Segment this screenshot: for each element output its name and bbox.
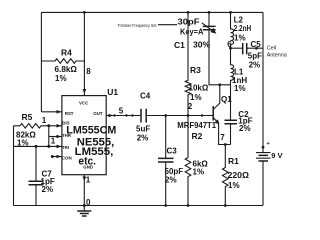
capacitor C4 xyxy=(136,91,213,142)
node dot base wire xyxy=(201,114,203,116)
node GND arrow xyxy=(82,177,86,182)
node junction top rail VCC xyxy=(83,11,86,14)
resistor R3 xyxy=(185,12,209,115)
resistor R5 xyxy=(14,112,62,148)
svg-text:5pF: 5pF xyxy=(248,52,262,61)
op-amp U1 555 IC box xyxy=(62,87,119,175)
svg-text:0: 0 xyxy=(86,198,91,207)
node junction TRI connector xyxy=(47,145,50,148)
svg-text:C4: C4 xyxy=(140,91,151,100)
svg-text:8: 8 xyxy=(86,67,91,76)
wire right vertical upper xyxy=(262,12,264,152)
svg-text:R4: R4 xyxy=(61,48,72,58)
node junction collector xyxy=(218,83,221,86)
node junction C5 right xyxy=(255,47,258,50)
svg-text:1: 1 xyxy=(51,137,56,146)
node junction node2 xyxy=(187,114,190,117)
svg-text:2.2nH: 2.2nH xyxy=(234,24,252,33)
wire top-left vertical xyxy=(40,12,42,111)
svg-text:1%: 1% xyxy=(234,84,246,93)
svg-text:U1: U1 xyxy=(107,87,118,97)
svg-text:VCC: VCC xyxy=(79,101,89,106)
node junction C7 top xyxy=(35,145,38,148)
node junction battery top xyxy=(262,146,265,149)
node VCC pin arrow xyxy=(83,89,87,94)
wire caption pointer xyxy=(158,24,177,26)
svg-text:1%: 1% xyxy=(234,33,246,42)
node junction C3 bottom xyxy=(164,204,167,207)
svg-text:R5: R5 xyxy=(22,112,33,122)
svg-text:10kΩ: 10kΩ xyxy=(189,84,209,93)
svg-text:2%: 2% xyxy=(239,124,251,133)
node TRI arrow xyxy=(57,145,62,149)
node CON arrow xyxy=(57,155,62,159)
svg-text:etc.: etc. xyxy=(78,156,96,168)
svg-text:2%: 2% xyxy=(42,185,54,194)
ground xyxy=(77,206,91,217)
wire RST row xyxy=(41,111,62,113)
svg-text:30%: 30% xyxy=(193,40,210,50)
resistor R2 xyxy=(185,116,208,206)
svg-text:2%: 2% xyxy=(249,61,261,70)
node dot b xyxy=(125,114,127,116)
node junction C3 top xyxy=(164,114,167,117)
svg-text:RST: RST xyxy=(65,111,74,116)
svg-text:MRF947T1: MRF947T1 xyxy=(177,120,216,130)
node DIS arrow xyxy=(57,124,62,128)
svg-text:1: 1 xyxy=(86,176,91,185)
wire TRI row xyxy=(14,145,62,147)
node dot a xyxy=(113,114,115,116)
svg-text:1%: 1% xyxy=(55,74,67,83)
wire GND pin xyxy=(83,175,85,206)
node junction R2 bottom xyxy=(187,204,190,207)
svg-text:TRI: TRI xyxy=(62,145,69,150)
capacitor C7 xyxy=(29,146,55,205)
inductor L1 xyxy=(231,48,248,93)
svg-text:1: 1 xyxy=(42,116,47,125)
svg-text:Antenna: Antenna xyxy=(267,53,287,59)
svg-text:1%: 1% xyxy=(190,93,202,102)
wire OUT row xyxy=(106,115,141,117)
wire DIS-TRI connector xyxy=(48,126,50,147)
capacitor C3 xyxy=(158,116,183,206)
svg-text:2: 2 xyxy=(188,102,193,111)
svg-text:2%: 2% xyxy=(165,175,177,184)
svg-text:9 V: 9 V xyxy=(271,151,282,160)
svg-text:7: 7 xyxy=(220,133,225,142)
node THR arrow xyxy=(57,135,62,139)
svg-text:OUT: OUT xyxy=(93,111,103,116)
svg-text:+: + xyxy=(267,141,270,147)
svg-text:R3: R3 xyxy=(190,65,201,75)
svg-text:Key=A: Key=A xyxy=(180,27,203,37)
wire VCC branch xyxy=(83,12,85,95)
svg-text:6.8kΩ: 6.8kΩ xyxy=(55,65,78,74)
svg-text:5: 5 xyxy=(119,107,124,116)
transistor Q1 xyxy=(213,85,232,145)
svg-text:1%: 1% xyxy=(193,168,205,177)
node junction node6 xyxy=(229,47,232,50)
wire bottom rail xyxy=(14,205,264,207)
node junction R1 bottom xyxy=(224,204,227,207)
capacitor C1 trimmer xyxy=(174,12,231,84)
resistor R4 xyxy=(41,48,84,83)
svg-text:Trimmer Frequency Set: Trimmer Frequency Set xyxy=(118,23,158,28)
svg-text:C3: C3 xyxy=(167,147,178,156)
svg-text:1%: 1% xyxy=(228,181,240,190)
node junction emitter R1 xyxy=(224,143,227,146)
node OUT arrow xyxy=(109,114,114,118)
wire right vertical lower xyxy=(262,161,264,206)
node dot c xyxy=(131,114,133,116)
resistor R1 xyxy=(223,145,250,206)
wire top rail xyxy=(41,11,263,13)
svg-text:C1: C1 xyxy=(174,40,185,50)
node junction L2 top rail xyxy=(229,11,232,14)
capacitor C5 xyxy=(231,40,264,70)
inductor L2 xyxy=(231,12,252,48)
wire left vertical xyxy=(13,126,15,206)
svg-text:220Ω: 220Ω xyxy=(228,171,250,180)
node junction ground xyxy=(83,204,86,207)
node junction trimmer top xyxy=(208,11,211,14)
svg-text:R2: R2 xyxy=(192,131,203,141)
svg-text:LM555CM: LM555CM xyxy=(66,125,116,137)
node junction R5 DIS xyxy=(47,124,50,127)
wire THR stub xyxy=(49,136,62,138)
svg-text:Cell: Cell xyxy=(267,46,276,52)
svg-text:2%: 2% xyxy=(137,133,149,142)
capacitor C2 xyxy=(225,85,253,145)
node CON dot xyxy=(51,155,54,158)
node junction R3 top rail xyxy=(187,11,190,14)
battery V1 9V xyxy=(256,141,282,161)
wire CON stub xyxy=(52,156,62,158)
svg-text:CON: CON xyxy=(62,155,72,160)
node RST arrow xyxy=(57,110,62,114)
svg-text:R1: R1 xyxy=(228,156,239,166)
